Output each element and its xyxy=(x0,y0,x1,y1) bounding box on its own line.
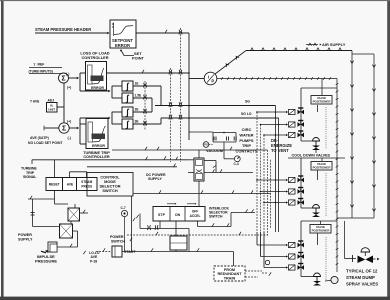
wire set point pointer xyxy=(122,51,135,56)
svg-text:(TURB INPUTS): (TURB INPUTS) xyxy=(29,70,53,74)
svg-text:RESET: RESET xyxy=(49,183,60,187)
signal vertical hashed xyxy=(336,79,338,273)
svg-text:ERROR: ERROR xyxy=(91,86,104,90)
svg-text:3E: 3E xyxy=(135,120,139,124)
svg-text:PS: PS xyxy=(204,143,208,147)
wire under-row bus xyxy=(139,214,141,229)
wire steam header to setpoint-error box xyxy=(35,32,108,34)
svg-text:T: T xyxy=(34,63,36,67)
hydraulic trip valve xyxy=(194,158,204,181)
switch box RESET xyxy=(46,178,63,191)
wire I/L unit to link xyxy=(57,106,64,108)
svg-text:(+): (+) xyxy=(67,120,71,124)
svg-text:ACCEL: ACCEL xyxy=(190,214,201,218)
electric signal line to positioners xyxy=(217,78,337,80)
wire integrator outputs bracket xyxy=(133,85,161,87)
svg-text:Σ: Σ xyxy=(62,125,66,132)
svg-text:(-): (-) xyxy=(66,72,69,76)
svg-text:2E: 2E xyxy=(135,108,139,112)
function box turbine trip controller xyxy=(86,119,108,149)
dashed bus vertical B xyxy=(180,28,182,162)
relay box R1 xyxy=(68,208,80,221)
wire controller1 output xyxy=(106,72,189,74)
integrator F4 xyxy=(122,119,133,129)
scan border bottom band xyxy=(0,297,390,300)
svg-text:AIR SUPPLY: AIR SUPPLY xyxy=(322,42,346,47)
valve actuator A3 xyxy=(314,273,321,277)
scan border left band xyxy=(1,0,4,300)
dotted bus 4 xyxy=(267,150,269,235)
solenoid valve SV1B xyxy=(286,123,288,125)
switch box STEAM PRESS xyxy=(77,178,98,191)
svg-text:UNIT: UNIT xyxy=(48,107,55,111)
svg-text:SUPPLY: SUPPLY xyxy=(18,237,33,241)
air line diagonal xyxy=(215,51,246,75)
air branch vertical 1 xyxy=(351,51,353,219)
svg-text:WATER: WATER xyxy=(239,132,253,137)
dotted bus 2 xyxy=(260,125,262,233)
solenoid valve SV3B xyxy=(286,255,288,257)
wire on-cell drop xyxy=(175,221,177,236)
summing junction 2 xyxy=(59,123,69,133)
svg-text:Y: Y xyxy=(112,25,114,29)
svg-text:TYPICAL OF 12: TYPICAL OF 12 xyxy=(346,269,378,274)
svg-text:ADJ: ADJ xyxy=(48,98,55,102)
wire redundant link xyxy=(245,270,262,272)
wire merged line SG lower xyxy=(161,117,189,119)
svg-text:OFF: OFF xyxy=(192,209,198,213)
svg-text:PUMPS: PUMPS xyxy=(239,138,254,143)
wire group2 feeds xyxy=(257,179,286,181)
svg-text:CONTROLLER: CONTROLLER xyxy=(81,55,108,60)
cool down valves group1 tie xyxy=(315,150,317,153)
svg-text:SUPPLY: SUPPLY xyxy=(148,177,162,181)
air supply header line xyxy=(246,50,352,52)
wire trip valve side line xyxy=(204,172,253,174)
signal drop to valve positioner 1 xyxy=(321,79,323,89)
wire set point input to summer2 xyxy=(44,127,59,129)
dotted bus 3 xyxy=(263,135,265,232)
svg-text:CIRC: CIRC xyxy=(242,127,252,132)
svg-text:P-18: P-18 xyxy=(90,259,97,263)
wire impulse link xyxy=(45,250,48,253)
main vertical bus xyxy=(188,33,190,140)
air branch link xyxy=(352,53,374,55)
solenoid valve SV3A xyxy=(286,244,288,246)
solenoid valve SV1C xyxy=(286,134,288,136)
wire to I/P converter xyxy=(189,78,204,80)
svg-text:NO LOAD SET POINT: NO LOAD SET POINT xyxy=(28,141,63,145)
svg-text:1E: 1E xyxy=(135,82,139,86)
svg-text:PRESSURE: PRESSURE xyxy=(35,258,57,263)
wire bypass to integrators 1-2 xyxy=(80,90,109,92)
solenoid valve SV3C xyxy=(286,266,288,268)
wire relay cluster xyxy=(74,204,76,208)
wire long 193.5 line xyxy=(133,193,271,195)
svg-text:SG: SG xyxy=(245,99,250,103)
valve positioner box P3 xyxy=(310,225,331,234)
air branch vertical 2 xyxy=(373,54,375,218)
wire selector feeds xyxy=(54,160,56,178)
integrator F3 xyxy=(122,107,133,117)
solenoid valve SV2C xyxy=(286,201,288,203)
valve actuator A2 xyxy=(313,205,320,209)
svg-text:POINT: POINT xyxy=(132,55,145,60)
wire trip valve top hook xyxy=(204,160,216,162)
label AIR SUPPLY xyxy=(306,44,318,46)
valve positioner box P1 xyxy=(311,96,332,105)
solenoid valve SV1A xyxy=(286,111,288,113)
wire SG LO line xyxy=(189,117,279,119)
selector switch row STP ON OFF xyxy=(153,207,205,222)
wire interlock to bus xyxy=(198,226,232,228)
svg-text:STEAM DUMP: STEAM DUMP xyxy=(346,275,375,280)
svg-text:SIGNAL: SIGNAL xyxy=(23,175,37,179)
valve actuator A1 xyxy=(313,138,320,141)
wire mid horizontal 167 xyxy=(87,166,177,168)
function box I/L UNIT xyxy=(47,103,58,113)
wire circ water feed xyxy=(189,131,213,133)
wire mid horizontal 150 xyxy=(112,149,240,151)
wire SG line xyxy=(189,105,276,107)
svg-text:P: P xyxy=(211,78,214,83)
wire circ water tap to gauge xyxy=(223,142,225,159)
integrator F2 xyxy=(122,93,133,103)
junction node on redundant line xyxy=(265,260,269,264)
svg-text:ERROR: ERROR xyxy=(115,43,130,48)
wire off-accel drop xyxy=(197,221,199,227)
wire merged line SG upper xyxy=(155,105,189,107)
svg-text:I: I xyxy=(208,75,209,80)
svg-text:POSITIONER: POSITIONER xyxy=(313,166,332,170)
gauge at actuator A3 xyxy=(331,276,338,283)
scan border right band xyxy=(387,0,390,300)
svg-text:ERROR: ERROR xyxy=(92,144,105,148)
svg-text:POSITIONER: POSITIONER xyxy=(312,229,331,233)
svg-text:STP: STP xyxy=(158,213,166,217)
svg-text:SWITCH: SWITCH xyxy=(209,214,223,218)
signal drop to positioner 2 xyxy=(321,158,323,162)
air header bottom tie xyxy=(337,217,374,219)
svg-text:TRIP: TRIP xyxy=(242,143,251,148)
dotted bus 1 xyxy=(256,112,258,232)
svg-text:Σ: Σ xyxy=(61,75,65,82)
svg-text:AVE (SATP): AVE (SATP) xyxy=(30,136,49,140)
solid bus pair from SG lines xyxy=(275,106,277,233)
group1 enclosure top xyxy=(301,87,337,89)
integrator F1 xyxy=(122,81,133,91)
wire summer1 output xyxy=(69,77,77,79)
wire control box drop xyxy=(131,196,133,252)
svg-text:COOL DOWN VALVES: COOL DOWN VALVES xyxy=(292,154,331,158)
solenoid valve SV2B xyxy=(286,190,288,192)
wire right bottom hooks xyxy=(233,252,235,267)
wire summer2 output xyxy=(69,127,77,129)
I/P converter xyxy=(204,72,217,85)
wire group1 manifold xyxy=(300,88,302,141)
start contactor box xyxy=(112,246,122,257)
wire reset drop xyxy=(54,191,56,205)
svg-text:SWITCH: SWITCH xyxy=(102,188,118,193)
function box loss-of-load controller xyxy=(86,62,107,91)
valve positioner box P2 xyxy=(311,162,332,171)
relay box R2 xyxy=(60,224,73,238)
svg-text:AVE: AVE xyxy=(67,183,74,187)
circ water pump contacts xyxy=(213,132,236,134)
svg-text:STEAM PRESSURE HEADER: STEAM PRESSURE HEADER xyxy=(35,27,91,32)
wire setpoint-error output xyxy=(136,32,189,34)
svg-text:VACUUM: VACUUM xyxy=(206,148,224,153)
relay box DE xyxy=(170,236,187,250)
svg-text:SWITCH: SWITCH xyxy=(111,239,125,243)
svg-text:SPRAY VALVES: SPRAY VALVES xyxy=(346,282,378,287)
dashed box FROM REDUNDANT TRAIN xyxy=(214,266,245,281)
wire turbine trip output xyxy=(31,160,33,164)
solenoid valve SV2A xyxy=(286,179,288,181)
gauge C-4 xyxy=(234,156,240,162)
svg-text:ON: ON xyxy=(175,213,181,217)
svg-text:C-7: C-7 xyxy=(121,206,126,210)
svg-text:(-): (-) xyxy=(68,136,71,140)
svg-text:POSITIONER: POSITIONER xyxy=(313,100,332,104)
svg-text:CONTROLLER: CONTROLLER xyxy=(83,155,110,159)
dashed interlock line xyxy=(127,234,268,236)
scan border top line xyxy=(0,0,390,1)
svg-text:TRAIN: TRAIN xyxy=(224,276,236,280)
wire start line xyxy=(96,251,112,253)
wire bypass to integrators 3-4 xyxy=(80,117,109,119)
svg-text:(+): (+) xyxy=(67,85,71,89)
wire turb inputs to summer xyxy=(61,74,63,76)
svg-text:TO VENT: TO VENT xyxy=(271,148,289,153)
group2 enclosure top xyxy=(288,157,345,159)
wire group2 manifold xyxy=(300,158,302,208)
svg-text:POWER: POWER xyxy=(110,235,124,239)
dashed bus vertical A xyxy=(170,68,172,162)
pressure switch PS xyxy=(203,142,209,148)
function box SETPOINT ERROR xyxy=(110,20,136,48)
svg-text:C-4: C-4 xyxy=(234,162,239,166)
dashed bus at integrators xyxy=(144,81,146,130)
wire to cooldown gauge xyxy=(189,159,194,161)
wire summer link vertical xyxy=(63,83,65,122)
svg-text:1.5E: 1.5E xyxy=(135,94,142,98)
group3 enclosure top xyxy=(301,220,337,222)
svg-text:CONTACTS: CONTACTS xyxy=(236,149,258,154)
svg-text:SG LO: SG LO xyxy=(241,112,252,116)
summing junction 1 xyxy=(59,73,69,83)
box CONTROL MODE SELECTOR SWITCH xyxy=(87,173,133,197)
switch box AVE xyxy=(63,178,77,191)
svg-text:POWER: POWER xyxy=(18,233,32,237)
wire group3 manifold xyxy=(300,221,302,277)
spray valve typical xyxy=(344,221,346,259)
svg-text:REF: REF xyxy=(38,62,45,66)
wire group1 feeds xyxy=(257,111,286,113)
impulse pressure sensor box xyxy=(48,242,57,252)
svg-text:T AVE: T AVE xyxy=(30,100,40,104)
dotted bus 5 xyxy=(270,160,272,228)
